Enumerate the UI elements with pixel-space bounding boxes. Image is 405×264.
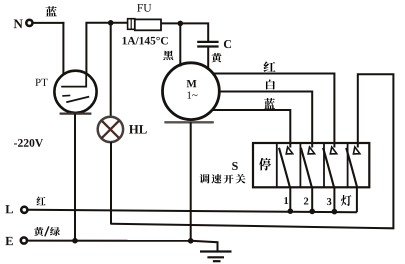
label red (hong) L wire [37,196,46,205]
fuse FU cap [128,19,135,30]
PT stem to E line [74,114,76,241]
fuse FU body [135,19,161,30]
lamp HL cross [102,121,120,139]
switch contact 1 blade [279,148,290,188]
label red (hong) [264,61,276,72]
motor earth stem [190,122,192,241]
timer PT circle [54,71,96,113]
junction dot motor earth [188,238,194,244]
terminal L [21,207,27,213]
label stop (ting) [259,158,271,171]
top rail PT to fuse [86,22,129,24]
label 1 [284,197,288,204]
label C [224,40,231,48]
wire black junction to motor [179,23,181,66]
label -220V [14,139,43,147]
switch contact 2 blade [301,148,312,188]
E line [27,240,191,242]
label yellow (huang) [212,53,222,63]
lamp circuit wire [111,74,393,228]
label E [5,237,12,245]
label N [14,19,23,28]
label 3 [327,198,331,205]
wire PT right terminal up [85,22,87,76]
label M [187,80,197,87]
ground bar 2 [207,256,224,258]
switch contact 3 blade [323,148,334,188]
ground bar 3 [213,260,221,262]
wire to ground symbol [191,241,218,252]
switch contact 4 blade [346,148,357,188]
junction dot switch 3 [332,209,338,215]
switch contact 4 triangle [353,147,360,154]
PT fixed contact [61,76,86,87]
switch S box [253,143,369,187]
label blue (lan) motor [264,98,275,109]
junction dot switch 1 [288,208,294,214]
PT base bar [60,112,92,114]
label PT [35,79,47,86]
wire N to bend [34,22,65,24]
label S [232,162,238,170]
switch divider 4 [347,143,349,187]
wire capacitor to motor [207,47,209,70]
wire down to PT left terminal [62,22,64,75]
junction dot PT earth [72,238,78,244]
wire junction to capacitor [180,23,208,41]
label 1A/145C [123,37,168,45]
red wire motor to switch 3 [213,74,334,148]
switch contact 2 triangle [308,147,315,154]
junction dot fuse right [178,21,184,27]
label blue wire (lan) [46,6,57,16]
wire junction to lamp HL [110,23,112,117]
switch divider 2 [299,143,301,187]
label FU [137,4,151,12]
lamp HL stem [110,142,112,225]
junction dot top rail [108,20,114,26]
ground bar 1 [200,250,232,252]
PT contact dash [62,94,70,97]
junction dot switch 2 [309,209,315,215]
switch divider 1 [276,143,278,187]
switch 2 stub [311,187,313,211]
label black (hei) [163,50,173,60]
lamp HL circle [98,117,123,142]
label white (bai) [266,80,275,90]
PT switch blade [66,97,89,103]
white wire motor to switch 2 [219,92,312,148]
switch 3 stub [333,187,335,211]
label yellow/green [34,227,43,236]
capacitor C plate top [197,41,218,43]
switch lamp stub [356,187,358,212]
L line [28,210,357,212]
switch contact 3 triangle [330,147,337,154]
motor M circle [163,63,220,120]
capacitor C plate bottom [197,45,218,47]
label L [5,205,13,213]
wire fuse to junction [161,22,181,24]
terminal E [21,237,27,243]
label HL [129,125,147,133]
blue wire motor to switch 1 [212,110,290,148]
label 1~ [187,92,197,99]
label 2 [304,198,308,205]
motor base bar [164,121,213,123]
terminal N [26,20,32,26]
label lamp (deng) [341,195,352,206]
switch contact 1 triangle [286,147,293,154]
label speed switch (tiaosu kaiguan) [200,174,210,184]
switch 1 stub [289,187,291,211]
switch divider 3 [323,143,325,187]
